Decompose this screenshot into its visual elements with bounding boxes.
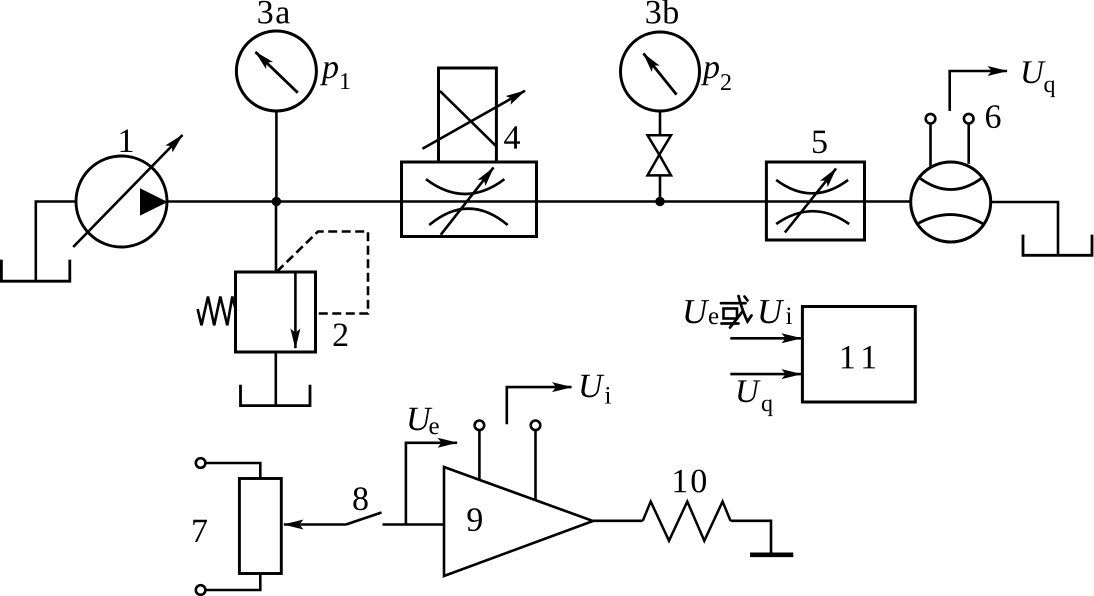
label 3b xyxy=(646,0,678,24)
valve 5 top arc xyxy=(776,180,848,193)
label 1 xyxy=(120,130,132,152)
valve 4 throttle top arc xyxy=(426,179,504,194)
valve 5 arrow xyxy=(785,169,836,233)
wire box 11 input 1 xyxy=(730,337,801,340)
tank T2 (relief valve drain) xyxy=(241,385,311,406)
flow meter 6 bottom arc xyxy=(918,215,983,224)
label Uq (box 11 input 2) xyxy=(738,380,761,402)
valve 5 throttle body xyxy=(766,162,864,240)
wire amp input xyxy=(383,523,445,526)
tank T1 (left, under pump suction) xyxy=(1,260,69,282)
relief valve 2 spring xyxy=(198,297,236,326)
label p2 xyxy=(701,62,719,85)
label 9 xyxy=(467,508,482,531)
wire relief valve drop xyxy=(275,202,278,273)
resistor 10 xyxy=(643,502,731,541)
node B (gauge 3b tap) xyxy=(655,197,664,206)
shutoff valve (gauge isolator) xyxy=(648,135,672,155)
wire flow meter right terminal xyxy=(967,124,970,164)
wire flow meter outlet xyxy=(991,202,1058,255)
valve 5 bottom arc xyxy=(776,211,849,224)
label 7 xyxy=(193,520,207,542)
wire main pressure line xyxy=(167,200,911,203)
gauge 3a xyxy=(236,31,316,111)
label 10 xyxy=(674,470,706,493)
ground xyxy=(750,552,793,557)
terminal left (flow meter) xyxy=(926,114,936,124)
label Ue (amp input) xyxy=(409,408,432,431)
wire Uq output tap xyxy=(950,71,1007,111)
terminal right (flow meter) xyxy=(964,114,974,124)
label 8 xyxy=(353,487,367,510)
label 11 xyxy=(842,346,875,368)
switch 8 wiper arrow xyxy=(284,523,346,526)
wire gauge 3b lower xyxy=(659,176,662,202)
terminal left (amp) xyxy=(475,421,485,431)
gauge 3b xyxy=(621,32,700,111)
potentiometer 7 body xyxy=(239,479,281,574)
valve 4 throttle arrow xyxy=(441,168,494,235)
flow meter 6 top arc xyxy=(919,178,982,190)
label Uq (top right) xyxy=(1023,61,1046,83)
switch 8 blade xyxy=(346,513,382,525)
wire gauge 3b upper xyxy=(659,111,662,136)
wire resistor to ground xyxy=(731,521,772,553)
gauge 3b needle xyxy=(644,54,677,95)
terminal right (amp) xyxy=(531,421,541,431)
wire Ue tap xyxy=(406,443,457,525)
label 3a xyxy=(258,1,289,24)
amplifier 9 xyxy=(444,467,593,576)
relief valve 2 body xyxy=(236,272,316,352)
valve 4 solenoid arrow xyxy=(423,91,526,149)
label Ue huo Ui xyxy=(685,300,709,323)
wire pump suction xyxy=(36,202,76,282)
label 4 xyxy=(504,126,520,148)
pump 1 (variable displacement) xyxy=(76,156,167,247)
flow meter 6 body xyxy=(911,162,991,242)
node A (gauge 3a tap) xyxy=(272,197,281,206)
wire pot top xyxy=(206,463,261,479)
label Ui xyxy=(581,375,604,398)
relief valve 2 flow arrow xyxy=(294,273,297,348)
wire gauge 3a drop xyxy=(275,111,278,202)
wire box 11 input 2 xyxy=(730,373,801,376)
label 5 xyxy=(813,131,827,154)
wire Ui tap xyxy=(507,387,572,424)
valve 4 throttle body xyxy=(402,162,537,237)
wire amp terminal right xyxy=(534,430,537,500)
wire flow meter left terminal xyxy=(929,124,932,167)
label 2 xyxy=(334,323,348,346)
tank T3 (right) xyxy=(1023,235,1092,256)
relief valve 2 pilot line (dashed) xyxy=(277,232,368,314)
wire relief valve to tank xyxy=(274,352,277,406)
valve 4 solenoid cross diagonal xyxy=(440,91,497,146)
valve 4 solenoid box xyxy=(439,68,497,162)
pump 1 variable arrow xyxy=(73,135,182,247)
wire amp output xyxy=(593,519,643,522)
terminal bottom (pot 7) xyxy=(196,585,206,595)
label 6 xyxy=(986,105,1001,128)
hanzi huo (or) xyxy=(721,296,752,328)
pump 1 flow triangle xyxy=(140,188,168,215)
wire amp terminal left xyxy=(478,430,481,480)
wire pot bottom xyxy=(206,574,261,591)
box 11 xyxy=(802,307,915,403)
gauge 3a needle xyxy=(256,52,298,93)
label p1 xyxy=(320,62,338,85)
terminal top (pot 7) xyxy=(196,458,206,468)
valve 4 throttle bottom arc xyxy=(429,209,508,225)
